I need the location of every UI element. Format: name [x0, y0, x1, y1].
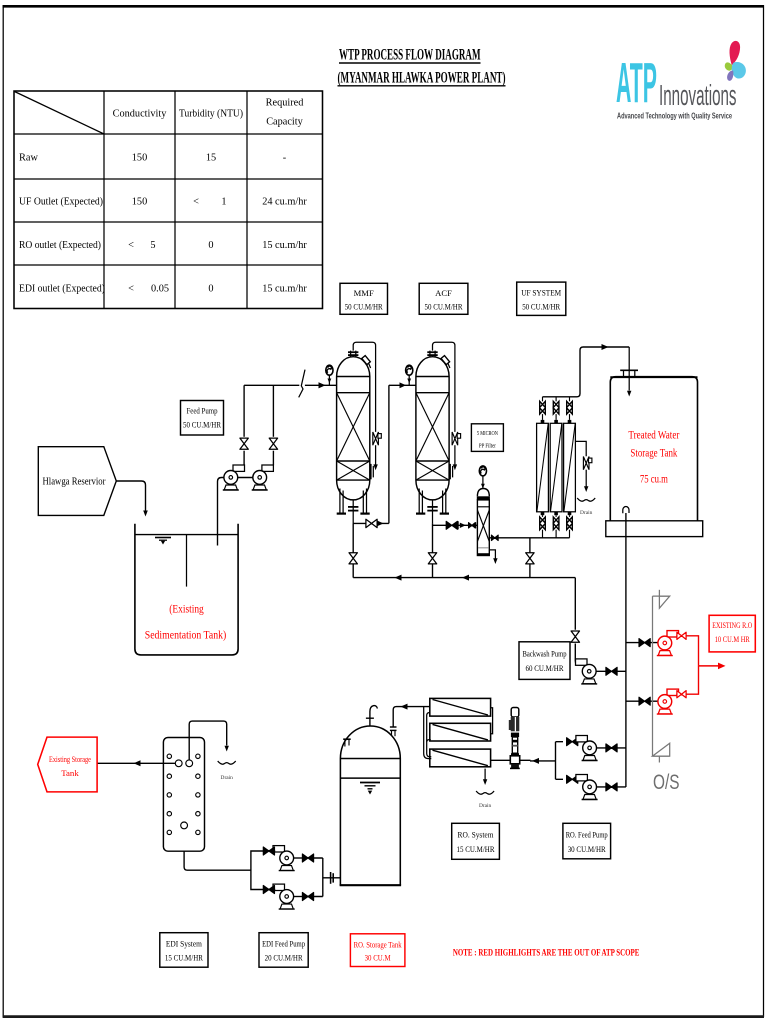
svg-text:Raw: Raw	[19, 153, 38, 164]
label RO. Feed Pump box	[563, 823, 611, 859]
valve feed P2 discharge	[269, 438, 277, 449]
svg-text:Feed Pump: Feed Pump	[187, 406, 218, 416]
valve EDI P2 suction	[302, 893, 313, 901]
svg-text:ACF: ACF	[435, 288, 452, 298]
spare nozzle left	[344, 740, 346, 747]
svg-text:WTP PROCESS FLOW DIAGRAM: WTP PROCESS FLOW DIAGRAM	[339, 46, 481, 64]
svg-text:5: 5	[150, 240, 155, 251]
svg-text:NOTE : RED HIGHLIGHTS ARE THE: NOTE : RED HIGHLIGHTS ARE THE OUT OF ATP…	[453, 949, 640, 959]
wire red discharge 2	[676, 666, 698, 694]
valve EDI P1 discharge	[263, 847, 274, 855]
wire RO permeate to RO tank	[393, 707, 490, 761]
drain squiggle UF	[577, 498, 595, 501]
ATP Innovations logo	[616, 41, 746, 121]
valve filter outlet	[491, 535, 498, 541]
EDI stack body	[163, 738, 204, 852]
svg-text:15 cu.m/hr: 15 cu.m/hr	[262, 240, 307, 251]
valve filter inlet	[469, 523, 476, 529]
svg-text:Storage Tank: Storage Tank	[630, 447, 677, 460]
tank: Existing Sedimentation Tank	[135, 524, 238, 655]
svg-text:RO outlet (Expected): RO outlet (Expected)	[19, 240, 101, 251]
pump EDI feed P2	[273, 884, 295, 909]
baffle	[186, 535, 188, 587]
tank: Treated Water Storage Tank	[606, 370, 703, 536]
svg-text:UF Outlet (Expected): UF Outlet (Expected)	[19, 197, 103, 208]
svg-text:Conductivity: Conductivity	[113, 109, 168, 120]
backwash drain header	[353, 577, 575, 579]
svg-text:Backwash Pump: Backwash Pump	[523, 649, 567, 659]
svg-text:RO. Storage Tank: RO. Storage Tank	[354, 941, 403, 950]
svg-text:15 cu.m/hr: 15 cu.m/hr	[262, 284, 307, 295]
svg-text:-: -	[283, 153, 287, 164]
wire reservoir to sedimentation tank	[116, 481, 145, 511]
svg-text:RO. System: RO. System	[458, 830, 494, 840]
vent pipe	[370, 706, 378, 726]
svg-text:Advanced Technology with Quali: Advanced Technology with Quality Service	[617, 110, 732, 120]
wire backwash line down	[575, 578, 582, 665]
line break symbol	[299, 370, 305, 398]
svg-text:Turbidity (NTU): Turbidity (NTU)	[179, 109, 243, 120]
wire UF permeate header to tank	[543, 347, 630, 397]
svg-text:<: <	[128, 240, 134, 251]
O/S signal pole	[653, 590, 670, 763]
svg-text:Required: Required	[266, 98, 305, 109]
svg-text:20 CU.M/HR: 20 CU.M/HR	[265, 953, 303, 963]
wire red discharge 1	[676, 636, 698, 666]
valve feed P1 discharge	[240, 438, 248, 449]
svg-text:50 CU.M/HR: 50 CU.M/HR	[183, 420, 221, 430]
svg-text:Sedimentation Tank): Sedimentation Tank)	[145, 628, 227, 642]
pump EDI feed P1	[273, 846, 295, 871]
valve backwash discharge	[606, 667, 617, 675]
wire ACF bottom junction	[433, 523, 478, 577]
wire main distribution pipe	[625, 513, 627, 787]
wire MMF drain leg	[352, 523, 354, 577]
vessel ACF (copy of MMF)	[416, 342, 461, 523]
label RO. Storage Tank box (red)	[350, 934, 405, 967]
logo petal red	[730, 41, 741, 65]
top nozzle flange	[348, 351, 358, 357]
valve ACF outlet	[446, 521, 457, 529]
pump RO high pressure (vertical multistage)	[509, 708, 520, 769]
gauge PI on MMF inlet	[326, 365, 333, 375]
tank top nozzle	[623, 371, 625, 377]
label MMF box	[340, 283, 388, 314]
wire filter outlet to UF	[489, 537, 569, 539]
svg-text:Capacity: Capacity	[266, 117, 303, 128]
svg-text:10 CU.M HR: 10 CU.M HR	[715, 635, 750, 644]
svg-text:Drain: Drain	[580, 510, 593, 516]
svg-text:15 CU.M/HR: 15 CU.M/HR	[457, 844, 495, 854]
wire EDI pump suction branches	[314, 858, 323, 897]
svg-text:30 CU.M: 30 CU.M	[365, 954, 391, 963]
RO vessel 2	[430, 723, 491, 741]
label Backwash Pump box	[519, 642, 570, 680]
svg-text:Drain: Drain	[479, 803, 492, 809]
label RO. System box	[452, 823, 500, 859]
wire feed header to MMF	[244, 384, 337, 386]
water level mark	[155, 538, 171, 541]
wire RO feed branch	[530, 742, 563, 780]
flange RO tank inlet	[390, 727, 397, 730]
UF membrane module 1	[537, 397, 549, 538]
valve red pump 2 suction	[639, 697, 650, 705]
node Existing Storage Tank (red)	[38, 737, 97, 792]
svg-text:PP Filter: PP Filter	[479, 443, 496, 450]
title: WTP PROCESS FLOW DIAGRAM	[338, 46, 506, 87]
wire RO concentrate drain	[484, 769, 486, 780]
valve RO feed P1 discharge	[606, 744, 617, 752]
svg-text:15: 15	[206, 153, 216, 164]
pump RO feed P1	[576, 736, 598, 761]
svg-text:1: 1	[221, 197, 226, 208]
wire RO tank outlet	[323, 877, 341, 879]
svg-text:<: <	[193, 197, 199, 208]
water level mark	[360, 783, 380, 789]
pump feed P2	[252, 465, 274, 490]
side flange	[370, 464, 372, 479]
valve RO feed P2 discharge	[606, 783, 617, 791]
svg-text:EDI System: EDI System	[166, 939, 202, 949]
svg-text:0.05: 0.05	[151, 284, 169, 295]
wire filter bottom drain	[489, 550, 495, 559]
wire MMF bottom to ACF riser	[353, 385, 416, 523]
valve MMF outlet	[366, 519, 377, 527]
svg-text:24 cu.m/hr: 24 cu.m/hr	[262, 197, 307, 208]
svg-text:EDI Feed Pump: EDI Feed Pump	[262, 939, 305, 949]
filter: 5 MICRON PP	[477, 489, 490, 556]
vessel MMF	[337, 342, 382, 523]
pump RO feed P2	[576, 775, 598, 800]
bottom nozzle flange	[348, 500, 358, 523]
svg-text:UF SYSTEM: UF SYSTEM	[521, 288, 561, 298]
svg-text:MMF: MMF	[354, 288, 374, 298]
wire EDI outlet to existing tank	[97, 762, 175, 764]
svg-text:50 CU.M/HR: 50 CU.M/HR	[345, 302, 383, 312]
svg-text:Treated Water: Treated Water	[628, 429, 679, 442]
svg-text:ATP: ATP	[616, 51, 657, 115]
table text	[19, 98, 307, 295]
svg-text:5 MICRON: 5 MICRON	[477, 430, 498, 437]
valve UF drain	[583, 457, 589, 470]
valve EDI P2 discharge	[263, 886, 274, 894]
wire EDI P1 discharge	[251, 851, 275, 871]
pump feed P1	[223, 465, 245, 490]
valve red 2	[677, 691, 686, 698]
wire red pump 2 suction	[626, 700, 658, 702]
svg-text:Existing Storage: Existing Storage	[49, 754, 91, 764]
wire red outlet arrow	[699, 665, 720, 667]
wire EDI top drain	[189, 721, 227, 760]
svg-text:150: 150	[132, 197, 147, 208]
valve MMF drain	[349, 553, 357, 564]
svg-text:EDI outlet (Expected): EDI outlet (Expected)	[19, 284, 105, 295]
pump existing RO P2 (red)	[657, 689, 679, 714]
label EDI System box	[160, 933, 208, 968]
valve red 1	[677, 632, 686, 639]
svg-text:0: 0	[208, 284, 213, 295]
valve EDI P1 suction	[302, 854, 313, 862]
valve UF backwash	[526, 553, 534, 564]
logo petal purple	[727, 71, 733, 81]
svg-text:0: 0	[208, 240, 213, 251]
label ACF box	[419, 283, 468, 314]
wire RO left connectors	[424, 707, 432, 759]
label UF SYSTEM box	[517, 282, 566, 315]
wire backwash discharge	[596, 670, 626, 672]
water quality table	[14, 91, 323, 309]
label EDI Feed Pump box	[259, 933, 308, 968]
svg-text:<: <	[128, 284, 134, 295]
svg-text:50 CU.M/HR: 50 CU.M/HR	[425, 302, 463, 312]
wire RO right connectors	[491, 708, 493, 734]
tank: RO Storage Tank	[340, 706, 402, 886]
backwash pipe from top	[353, 342, 375, 432]
wire UF drain branch	[575, 441, 586, 456]
svg-text:60 CU.M/HR: 60 CU.M/HR	[526, 663, 564, 673]
logo petal green	[725, 62, 733, 70]
pump existing RO P1 (red)	[657, 631, 679, 656]
label 5 MICRON PP Filter	[471, 424, 503, 452]
drain squiggle EDI	[218, 761, 236, 764]
node Hlawga Reservior	[38, 447, 116, 516]
wire red pump 1 suction	[626, 642, 658, 644]
wire RO feed P1 discharge	[597, 747, 626, 749]
pump backwash	[576, 659, 598, 684]
valve backwash suction	[571, 631, 579, 642]
svg-text:Hlawga Reservior: Hlawga Reservior	[43, 477, 107, 488]
wire pump suction from tank	[218, 478, 260, 546]
relief flag on dome	[362, 356, 371, 365]
UF membrane module 2	[550, 397, 562, 538]
valve backwash	[373, 432, 379, 445]
label EXISTING R.O box (red)	[709, 615, 755, 652]
svg-text:150: 150	[132, 153, 147, 164]
tank outlet hook	[623, 506, 629, 513]
svg-text:Drain: Drain	[221, 775, 234, 781]
wire UF backwash takeoff	[529, 538, 531, 578]
UF membrane module 3	[564, 397, 576, 538]
logo petal cyan	[732, 62, 746, 79]
valve RO feed P1 suction	[567, 738, 578, 746]
svg-text:30 CU.M/HR: 30 CU.M/HR	[568, 844, 606, 854]
wire EDI feed line	[184, 829, 251, 870]
svg-text:15 CU.M/HR: 15 CU.M/HR	[165, 953, 203, 963]
label Feed Pump 50 CU.M/HR	[181, 401, 224, 436]
gauge PI on filter	[479, 466, 486, 476]
valve ACF drain	[428, 553, 436, 564]
svg-text:Innovations: Innovations	[659, 80, 737, 112]
wire tank inlet dip	[628, 347, 630, 391]
svg-text:EXISTING R.O: EXISTING R.O	[712, 621, 752, 630]
valve red pump 1 suction	[639, 639, 650, 647]
svg-text:50 CU.M/HR: 50 CU.M/HR	[522, 302, 560, 312]
gauge PI on ACF inlet	[406, 365, 413, 375]
svg-text:RO. Feed Pump: RO. Feed Pump	[566, 830, 608, 840]
wire RO feed P2 discharge	[597, 786, 626, 788]
valve RO feed P2 suction	[567, 775, 578, 783]
drain squiggle RO	[476, 791, 494, 794]
wire feed pump risers	[244, 385, 273, 465]
svg-text:75 cu.m: 75 cu.m	[640, 473, 668, 486]
svg-text:(Existing: (Existing	[169, 602, 204, 616]
wire HP pump line	[491, 759, 531, 761]
svg-text:O/S: O/S	[653, 771, 680, 794]
wire EDI P2 discharge	[251, 871, 275, 890]
svg-text:(MYANMAR HLAWKA POWER PLANT): (MYANMAR HLAWKA POWER PLANT)	[338, 68, 506, 86]
svg-text:Tank: Tank	[61, 768, 79, 778]
vessel legs	[337, 489, 370, 514]
RO vessel 1	[430, 698, 491, 716]
RO vessel 3	[430, 749, 491, 767]
